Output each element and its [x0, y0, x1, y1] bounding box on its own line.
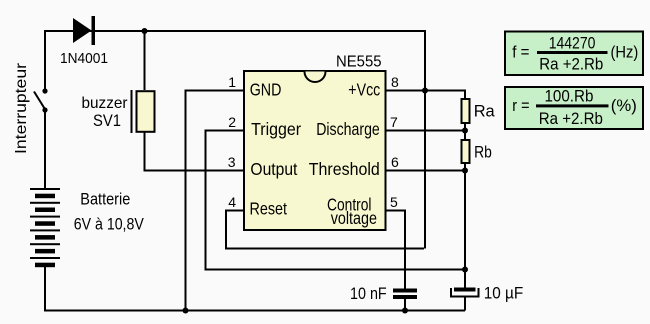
svg-text:Trigger: Trigger — [251, 119, 301, 139]
svg-text:f =: f = — [512, 43, 529, 61]
diode D1 1N4001 triangle — [73, 18, 92, 43]
svg-text:buzzer: buzzer — [82, 95, 129, 112]
capacitor C1 10nF top plate — [393, 289, 417, 293]
wire buzzer top — [144, 31, 146, 90]
svg-text:Interrupteur: Interrupteur — [13, 62, 30, 154]
svg-text:(%): (%) — [611, 96, 637, 115]
svg-text:1: 1 — [228, 74, 236, 90]
svg-text:6V à 10,8V: 6V à 10,8V — [74, 216, 144, 234]
svg-text:voltage: voltage — [331, 208, 377, 228]
capacitor C1 10nF bottom plate — [393, 295, 417, 299]
wire Rb bottom down to C2 — [464, 163, 466, 270]
svg-text:Ra +2.Rb: Ra +2.Rb — [539, 109, 603, 128]
wire C1 bottom stub — [404, 299, 406, 311]
svg-text:Reset: Reset — [250, 199, 288, 219]
svg-text:8: 8 — [391, 74, 399, 90]
node junction Rb pin 6 — [462, 168, 468, 174]
buzzer SV1 body — [137, 91, 155, 132]
buzzer SV1 left bar — [131, 90, 133, 133]
node junction buzzer top — [142, 28, 148, 34]
switch S1 blade — [34, 92, 46, 111]
wire top +V rail — [45, 30, 425, 32]
wire pin 2 Trigger — [206, 131, 466, 270]
battery BT1 plates — [30, 188, 60, 267]
wire C2 top stub — [464, 270, 466, 288]
wire left vertical bottom — [44, 265, 46, 311]
svg-text:(Hz): (Hz) — [611, 42, 639, 61]
wire pin 7 Discharge — [386, 130, 465, 132]
node junction C1 ground — [402, 308, 408, 314]
wire pin 1 GND to ground rail — [186, 91, 244, 311]
wire +Vcc right vertical — [424, 30, 426, 249]
svg-text:Rb: Rb — [474, 142, 492, 161]
switch S1 top contact — [42, 88, 47, 93]
wire pin 5 Control voltage to C1 — [386, 211, 405, 289]
svg-text:10 nF: 10 nF — [350, 284, 387, 303]
node junction pin2 C2 — [462, 267, 468, 273]
formula box frequency — [505, 32, 643, 76]
capacitor C2 10uF positive plate — [454, 288, 476, 292]
wire C2 bottom stub — [464, 297, 466, 311]
svg-text:100.Rb: 100.Rb — [545, 87, 594, 106]
svg-text:SV1: SV1 — [93, 112, 121, 130]
switch S1 bottom contact — [42, 107, 47, 112]
svg-text:144270: 144270 — [549, 33, 596, 52]
formula box ratio — [505, 87, 643, 129]
wire buzzer bottom to pin 3 — [145, 132, 244, 171]
svg-text:r =: r = — [512, 97, 529, 115]
wire left vertical top — [44, 30, 46, 91]
diode D1 cathode bar — [92, 16, 96, 45]
svg-text:Threshold: Threshold — [309, 159, 380, 179]
svg-text:5: 5 — [390, 194, 398, 210]
node junction +Vcc pin 8 — [422, 88, 428, 94]
svg-text:7: 7 — [390, 114, 398, 130]
formula fraction bar 2 — [536, 104, 609, 107]
resistor Ra body — [462, 99, 470, 123]
formula fraction bar 1 — [537, 51, 608, 54]
svg-text:Discharge: Discharge — [316, 119, 380, 139]
svg-text:+Vcc: +Vcc — [348, 79, 380, 99]
svg-text:3: 3 — [228, 154, 236, 170]
svg-text:Output: Output — [250, 159, 297, 179]
wire bottom ground rail — [44, 310, 465, 312]
IC U1 notch — [305, 72, 326, 83]
svg-text:10 µF: 10 µF — [484, 284, 524, 303]
svg-text:6: 6 — [391, 154, 399, 170]
capacitor C2 10uF negative bracket — [451, 288, 479, 297]
svg-text:Batterie: Batterie — [80, 190, 130, 208]
wire pin 4 Reset to +Vcc — [226, 211, 424, 249]
wire Ra bottom to Rb top — [464, 123, 466, 140]
wire pin 8 +Vcc to Ra — [386, 91, 465, 99]
resistor Rb body — [462, 140, 470, 163]
wire left vertical middle — [44, 109, 46, 189]
svg-text:Ra +2.Rb: Ra +2.Rb — [539, 55, 603, 74]
op IC U1 NE555 body — [244, 71, 386, 230]
svg-text:1N4001: 1N4001 — [60, 50, 108, 67]
svg-text:4: 4 — [228, 194, 236, 210]
svg-text:NE555: NE555 — [336, 54, 382, 71]
node junction GND ground rail — [183, 308, 189, 314]
svg-text:Ra: Ra — [474, 101, 496, 120]
node junction Ra-Rb pin 7 — [462, 128, 468, 134]
svg-text:GND: GND — [250, 79, 282, 99]
wire pin 6 Threshold — [386, 170, 465, 172]
svg-text:2: 2 — [228, 114, 236, 130]
